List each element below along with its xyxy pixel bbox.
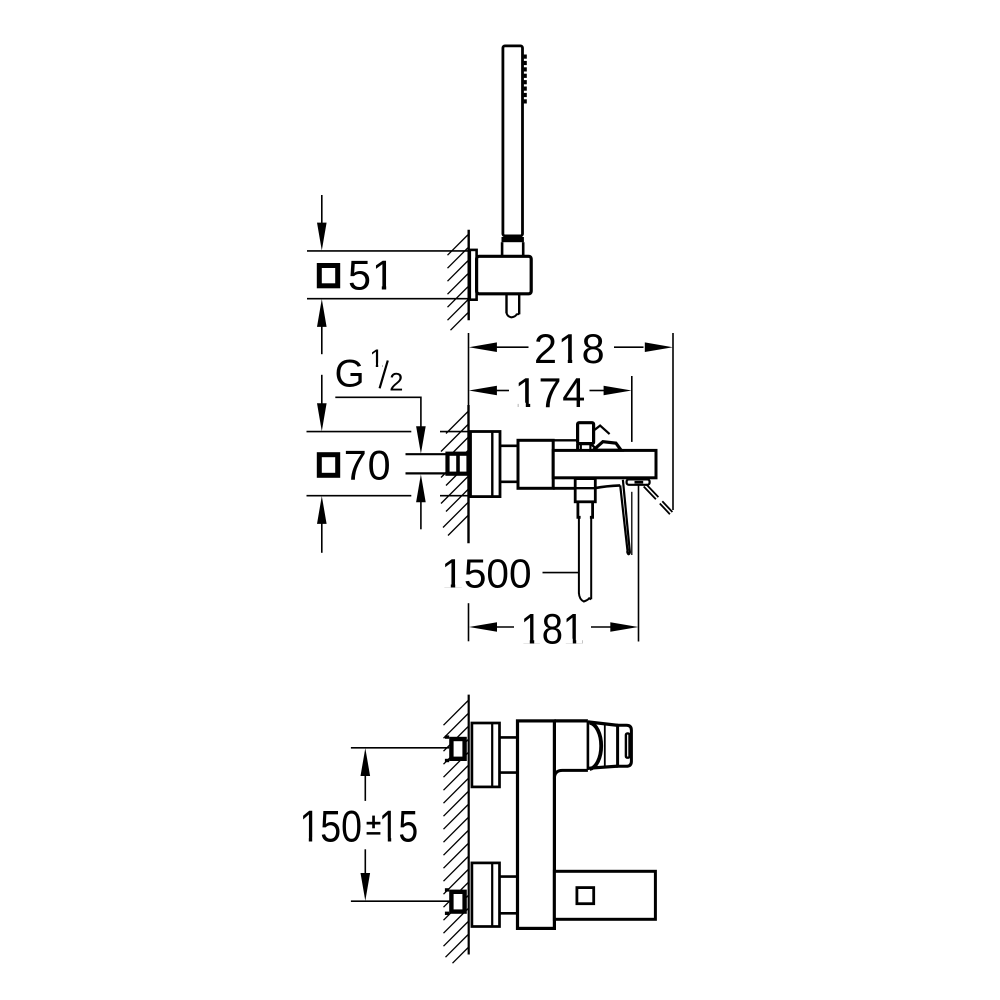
wall line (top view) [468,230,470,321]
handle dark band [502,237,524,242]
svg-text:G: G [335,352,365,395]
dimension 70: square symbol [319,455,337,476]
dimension 150±15: lower arrow (points down) [364,849,366,874]
lever rear tip (checkmark above body) [594,426,610,435]
holder wall plate [470,250,477,300]
hose stub below holder [505,294,507,313]
svg-text:70: 70 [344,443,392,489]
handle dome curve [590,723,601,769]
wall line (bottom view) [468,695,470,955]
small diagonal at stem base [591,444,597,450]
G1/2 supply nipple in wall: thin pipe lines [406,453,447,455]
svg-text:2: 2 [389,369,403,397]
arrow pointing up at nipple bottom [416,474,426,502]
dimension 181: right extension line [638,484,640,642]
dimension 218: right extension line [672,333,674,510]
wall line / 218 left extension line (middle view) [468,333,470,405]
lower escutcheon (front view) [472,863,500,927]
svg-text:15: 15 [379,803,418,852]
escutcheon (side view) [471,432,501,497]
handle end slot [626,733,630,757]
mixer body (horizontal bar) [553,450,656,477]
svg-text:218: 218 [534,326,605,372]
shower outlet flange + mid block [575,479,595,502]
dimension 51: square symbol [319,266,337,286]
lever (side view, pointing down) [595,485,621,488]
dimension 174: right extension line [631,376,633,442]
svg-text:181: 181 [520,604,584,652]
svg-text:51: 51 [348,253,396,299]
hose break wave [579,593,591,602]
shower outlet lower block [578,502,593,518]
1500 leader line [543,572,579,574]
spray nozzles (dots on right edge) [524,55,527,104]
hose break wave [507,313,520,318]
lower connector [500,875,518,878]
handle end cap [618,725,632,766]
svg-text:1500: 1500 [441,550,531,596]
body vertical bar (front view) [518,721,555,929]
wall hatching (top view) [448,234,469,330]
square detail on spout [577,888,594,904]
svg-text:174: 174 [515,370,586,416]
dimension 51: extension lines [307,250,470,252]
diverter knob on top [576,444,579,451]
dimension 51: lower arrow (points up) [317,299,327,327]
handle lower section [501,242,504,256]
top plateau strip right of housing [553,439,577,441]
spout outlet (mousegrip) under body right end [627,479,650,484]
handle taper outline [588,722,618,726]
knob stem [580,444,582,451]
white patches to remove Liberation digit-1 foot serifs [301,286,582,843]
dimension 51: upper arrow (points down) [321,195,323,224]
upper supply union (thick square in wall) [445,735,449,738]
shower hose [578,517,580,593]
upper connector [500,736,518,739]
wall hatching (bottom view) [444,700,469,963]
lever pivot boss on body top [593,442,621,451]
neck between escutcheon and cartridge housing [500,444,518,447]
lower supply union (thick square in wall) [445,888,449,891]
under body: housing bottom step [553,487,575,490]
dimension 70: lower arrow (points up) [317,496,327,524]
dimension 150±15: extension lines [351,747,449,749]
hand shower handle [503,46,523,236]
upper escutcheon (front view) [472,723,500,787]
dimension 174: dimension line and arrows [469,386,497,396]
G 1/2 leader line with arrow pointing to nipple [335,397,421,427]
svg-text:150: 150 [299,802,362,852]
wall hatching (middle view) [441,411,469,536]
handle joint line [587,721,590,770]
water stream direction marks [644,484,673,514]
top arm to handle [554,719,588,722]
thin line on handle [604,724,606,767]
cartridge housing [518,440,553,488]
holder body [477,256,532,294]
dimension 70: upper arrow (points down) [321,375,323,404]
dimension 150±15: upper arrow (points up) [361,748,371,776]
dimension 218: dimension line and arrows [469,342,497,352]
spout (front view) [554,871,655,919]
dimension 70: extension lines [307,431,412,433]
dimension 181: dimension line and arrows [469,622,497,632]
svg-text:1: 1 [370,345,384,373]
G1/2 union at wall (thick box) [448,454,469,474]
